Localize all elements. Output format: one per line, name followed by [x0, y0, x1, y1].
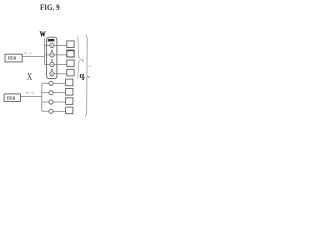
inner brace (upper group)	[78, 36, 81, 79]
svg-text:w′-2: w′-2	[26, 91, 34, 95]
svg-text:w: w	[87, 75, 90, 79]
bus V2 (left of lower bank)	[42, 83, 49, 111]
accumulator square A3	[67, 60, 74, 67]
chain segment 2	[51, 59, 53, 61]
block B1 (upper left box)	[5, 54, 22, 62]
stub wire to row 6	[42, 92, 49, 94]
accumulator square A2 (bold top)	[66, 50, 74, 57]
accumulator square A7	[66, 98, 73, 105]
row wire 6 (lower)	[53, 92, 66, 94]
row wire 7 (lower)	[53, 101, 66, 103]
vertical wire V1 (left of upper bank)	[44, 38, 46, 65]
row wire 2 (upper)	[54, 54, 67, 56]
register bar inside U1	[48, 39, 55, 42]
multiplier M7	[49, 100, 53, 104]
accumulator square A1	[67, 41, 74, 48]
stub wire to row 2	[45, 54, 50, 56]
multiplier M8	[49, 109, 53, 113]
q subscript mark	[84, 77, 85, 78]
wire from B2 to bus V2	[21, 95, 42, 97]
svg-text:q: q	[79, 70, 84, 80]
svg-text:FIG. 9: FIG. 9	[40, 2, 60, 12]
row wire 4 (upper)	[54, 73, 67, 75]
svg-text:k: k	[89, 64, 91, 68]
upper bank box U1	[47, 37, 57, 78]
wire from B1 to node V1	[22, 56, 44, 58]
svg-text:ITER: ITER	[7, 96, 16, 100]
multiplier M5	[49, 81, 53, 85]
accumulator square A4	[67, 69, 74, 76]
svg-text:w′-1: w′-1	[24, 51, 32, 55]
multiplier M3	[50, 62, 54, 66]
svg-text:W: W	[40, 30, 46, 39]
multiplier M2	[50, 53, 54, 57]
chain segment 3	[51, 69, 53, 71]
stub wire to row 3	[45, 64, 50, 66]
block B2 (lower left box)	[4, 94, 20, 102]
outer bracket	[85, 35, 87, 117]
multiplier M4	[50, 72, 54, 76]
svg-text:X: X	[27, 72, 33, 83]
accumulator square A6	[66, 89, 73, 96]
chain segment 1	[51, 50, 53, 52]
row wire 1 (upper)	[54, 44, 67, 46]
stub wire to row 1	[45, 44, 50, 46]
multiplier M6	[49, 91, 53, 95]
row wire 8 (lower)	[53, 110, 66, 112]
row wire 5 (lower)	[53, 82, 66, 84]
multiplier M1	[50, 43, 54, 47]
stub wire to row 7	[42, 101, 49, 103]
accumulator square A8	[66, 107, 73, 114]
row wire 3 (upper)	[54, 64, 67, 66]
accumulator square A5	[66, 79, 73, 86]
svg-text:k: k	[82, 57, 84, 62]
svg-text:ITER: ITER	[8, 57, 17, 61]
